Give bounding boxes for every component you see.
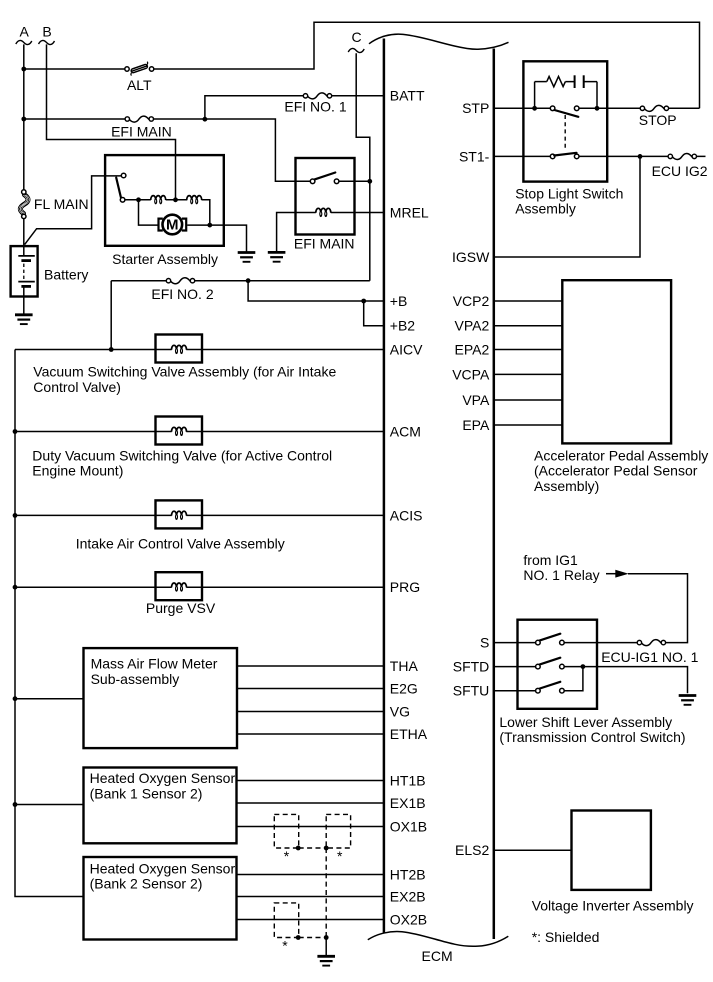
ground SFTD [679, 696, 697, 705]
wire SFTU link [564, 667, 583, 691]
capacitor stop switch [565, 75, 597, 88]
label Vacuum Switching Valve Assembly [33, 364, 336, 395]
coil PRG [172, 583, 187, 592]
ECM top torn edge [369, 34, 509, 49]
svg-text:ECU IG2: ECU IG2 [652, 163, 708, 179]
ground shield [317, 956, 335, 965]
wire A bus [23, 44, 25, 189]
wire C drop [356, 53, 370, 281]
svg-text:E2G: E2G [390, 680, 418, 696]
label Duty Vacuum Switching Valve [32, 447, 332, 478]
svg-text:Mass Air Flow Meter: Mass Air Flow Meter [91, 656, 218, 672]
stop light switch box [523, 61, 607, 181]
pin SFTD [453, 659, 536, 675]
junction starter motor out [207, 223, 212, 228]
svg-text:OX2B: OX2B [390, 911, 427, 927]
dashed link stop switches [564, 115, 566, 150]
switch STP [550, 106, 579, 117]
junction starter B feed [173, 197, 178, 202]
fusible link ALT [125, 62, 154, 76]
node A [16, 24, 32, 45]
wire +B2 feed [364, 301, 385, 326]
switch starter [116, 173, 126, 202]
svg-text:PRG: PRG [390, 579, 420, 595]
pin S [480, 635, 536, 651]
junction +B tap [246, 278, 251, 283]
svg-text:HT1B: HT1B [390, 772, 426, 788]
svg-text:Heated Oxygen Sensor: Heated Oxygen Sensor [90, 770, 236, 786]
svg-text:(Bank 2 Sensor 2): (Bank 2 Sensor 2) [90, 876, 203, 892]
switch SFTU [536, 682, 565, 693]
fuse ECU IG2 [668, 153, 696, 159]
svg-text:EX2B: EX2B [390, 888, 426, 904]
heated oxygen sensor bank2 box [84, 857, 237, 940]
svg-text:ECU-IG1 NO. 1: ECU-IG1 NO. 1 [601, 649, 698, 665]
ground starter [238, 253, 256, 262]
wire SFTD to ground [564, 667, 687, 694]
svg-text:(Transmission Control Switch): (Transmission Control Switch) [499, 729, 685, 745]
junction bus-ACM [13, 429, 18, 434]
svg-text:EFI NO. 1: EFI NO. 1 [284, 98, 346, 114]
svg-text:(Bank 1 Sensor 2): (Bank 1 Sensor 2) [90, 786, 203, 802]
svg-text:*: * [282, 937, 288, 953]
label Accelerator Pedal Assembly [534, 447, 708, 494]
fusible link FL MAIN [19, 190, 30, 219]
switch SFTD [536, 658, 565, 669]
wire relay coil leads [277, 213, 385, 253]
junction rc left [532, 106, 537, 111]
wire B bus [47, 44, 176, 199]
svg-text:ECM: ECM [422, 948, 453, 964]
wire starter internal [125, 200, 247, 252]
shield dashed link OX2B [299, 937, 327, 939]
pin EX1B [237, 795, 426, 811]
wire MAF left feed [15, 698, 84, 700]
coil EFI MAIN relay [316, 208, 331, 217]
coil starter primary [151, 196, 166, 205]
junction bus-PRG [13, 585, 18, 590]
node B [39, 24, 55, 45]
arrow from IG1 relay [606, 570, 688, 643]
svg-text:BATT: BATT [390, 88, 425, 104]
coil ACIS [172, 511, 187, 520]
pin OX1B [237, 818, 428, 834]
svg-text:EFI MAIN: EFI MAIN [294, 236, 355, 252]
ECM bottom torn edge [368, 931, 509, 946]
svg-text:A: A [20, 24, 30, 40]
svg-text:EFI MAIN: EFI MAIN [111, 124, 172, 140]
svg-text:*: * [337, 848, 343, 864]
svg-text:Assembly: Assembly [515, 201, 576, 217]
accelerator pedal box [562, 280, 671, 443]
wire FL MAIN to battery [23, 219, 25, 246]
pin IGSW [452, 156, 640, 265]
pin ELS2 [455, 842, 571, 858]
junction shield OX1B b [324, 846, 329, 851]
svg-text:VCPA: VCPA [452, 366, 490, 382]
wire AICV line [15, 349, 384, 351]
svg-text:Starter Assembly: Starter Assembly [112, 251, 218, 267]
pin VCP2 [453, 293, 563, 309]
shield box OX1B left [274, 814, 298, 848]
junction bus-MAF [13, 696, 18, 701]
svg-text:B: B [42, 24, 51, 40]
svg-text:EX1B: EX1B [390, 795, 426, 811]
junction SFTD-SFTU [581, 664, 586, 669]
pin OX2B [237, 911, 428, 927]
label Heated Oxygen Sensor Bank 1 [90, 770, 236, 801]
fuse STOP [640, 105, 668, 111]
wire S to fuse [564, 642, 637, 644]
pin VPA2 [455, 318, 563, 334]
coil AICV [172, 345, 187, 354]
wire stop switch rc branch [535, 82, 597, 109]
relay box EFI MAIN [296, 158, 355, 235]
svg-text:SFTD: SFTD [453, 659, 490, 675]
svg-text:Vacuum Switching Valve Assembl: Vacuum Switching Valve Assembly (for Air… [33, 364, 336, 380]
svg-text:Assembly): Assembly) [534, 478, 599, 494]
junction EFI NO.2 to AICV [109, 347, 114, 352]
wire EFI NO.1 line [205, 96, 384, 119]
wire ST1- to fuse [579, 155, 706, 157]
pin EPA [462, 417, 562, 433]
mass air flow meter box [84, 648, 238, 748]
shift lever box [518, 620, 598, 709]
svg-text:Heated Oxygen Sensor: Heated Oxygen Sensor [90, 860, 236, 876]
switch ST1- [550, 153, 579, 159]
wire STP to fuse [579, 107, 700, 109]
svg-text:SFTU: SFTU [453, 683, 490, 699]
svg-text:*: * [284, 848, 290, 864]
svg-text:ALT: ALT [127, 77, 152, 93]
junction starter switch-coil [136, 197, 141, 202]
junction bus-ACIS [13, 513, 18, 518]
svg-text:+B2: +B2 [390, 318, 416, 334]
svg-text:IGSW: IGSW [452, 249, 490, 265]
svg-text:VPA2: VPA2 [455, 318, 490, 334]
label Stop Light Switch Assembly [515, 185, 623, 216]
junction relay-C [367, 179, 372, 184]
ground battery [15, 315, 33, 324]
svg-text:S: S [480, 635, 489, 651]
pin SFTU [453, 683, 536, 699]
coil starter secondary [187, 196, 202, 205]
wire ALT line and top feed [24, 22, 700, 108]
wire battery to starter switch [25, 176, 122, 245]
svg-text:FL MAIN: FL MAIN [34, 196, 89, 212]
shield box OX1B right [326, 814, 350, 848]
ECM right edge [493, 49, 496, 940]
wire ACIS line [15, 514, 384, 516]
wire HO2S1 left feed [15, 804, 84, 806]
fuse EFI NO. 1 [303, 93, 331, 99]
pin VPA [462, 392, 562, 408]
ECM left edge [383, 39, 386, 934]
junction A-ALT [21, 67, 26, 72]
pin VG [237, 703, 410, 719]
shield dashed link OX1B [299, 847, 327, 849]
svg-text:STP: STP [462, 100, 489, 116]
svg-text:EPA: EPA [462, 417, 490, 433]
pin HT2B [237, 866, 426, 882]
heated oxygen sensor bank1 box [84, 768, 237, 844]
svg-text:Accelerator Pedal Assembly: Accelerator Pedal Assembly [534, 447, 708, 463]
pin ST1- [459, 148, 550, 164]
svg-text:NO. 1 Relay: NO. 1 Relay [523, 567, 599, 583]
svg-text:Sub-assembly: Sub-assembly [91, 671, 180, 687]
junction +B2 tap [361, 299, 366, 304]
junction rc right [595, 106, 600, 111]
label from IG1 NO.1 Relay [523, 552, 599, 583]
battery [11, 246, 38, 315]
ground relay coil [268, 252, 286, 261]
svg-text:Engine Mount): Engine Mount) [32, 463, 123, 479]
pin THA [237, 658, 418, 674]
motor starter M [159, 215, 187, 235]
fuse EFI MAIN [125, 116, 153, 122]
pin STP [462, 100, 550, 116]
svg-text:STOP: STOP [639, 112, 677, 128]
wire shield ground lead [325, 938, 327, 957]
wire ACM line [15, 431, 384, 433]
wire VSV supply bus [15, 350, 84, 897]
label Lower Shift Lever Assembly [499, 714, 685, 745]
pin HT1B [237, 772, 426, 788]
svg-text:VG: VG [390, 703, 410, 719]
svg-text:Lower Shift Lever Assembly: Lower Shift Lever Assembly [499, 714, 672, 730]
svg-text:ACM: ACM [390, 423, 421, 439]
svg-text:MREL: MREL [390, 204, 429, 220]
pin VCPA [452, 366, 562, 382]
wire EFI NO.2 line [111, 281, 370, 350]
fuse ECU-IG1 NO.1 [637, 640, 665, 646]
wire relay contact to C line [339, 180, 370, 182]
vsv PRG box [156, 572, 203, 600]
fuse EFI NO. 2 [166, 278, 194, 284]
svg-text:(Accelerator Pedal Sensor: (Accelerator Pedal Sensor [534, 463, 698, 479]
svg-text:C: C [352, 29, 362, 45]
svg-text:Intake Air Control Valve Assem: Intake Air Control Valve Assembly [76, 536, 285, 552]
svg-text:ACIS: ACIS [390, 507, 423, 523]
svg-text:Purge VSV: Purge VSV [146, 600, 216, 616]
junction ST1-IGSW [638, 154, 643, 159]
wire PRG line [15, 586, 384, 588]
relay contact EFI MAIN [310, 173, 339, 184]
svg-text:ST1-: ST1- [459, 148, 490, 164]
svg-text:THA: THA [390, 658, 419, 674]
svg-text:HT2B: HT2B [390, 866, 426, 882]
resistor stop switch [535, 76, 566, 86]
junction A-EFI MAIN [21, 117, 26, 122]
pin EPA2 [455, 341, 563, 357]
vsv AICV box [156, 335, 203, 363]
svg-text:Stop Light Switch: Stop Light Switch [515, 185, 623, 201]
wire +B feed [248, 281, 384, 301]
svg-text:M: M [166, 217, 179, 234]
svg-text:OX1B: OX1B [390, 818, 427, 834]
pin EX2B [237, 888, 426, 904]
junction shield OX2B a [296, 935, 301, 940]
label Mass Air Flow Meter Sub-assembly [91, 656, 218, 687]
svg-text:ELS2: ELS2 [455, 842, 489, 858]
junction bus-HO2S1 [13, 802, 18, 807]
svg-text:EFI NO. 2: EFI NO. 2 [151, 286, 213, 302]
svg-text:Battery: Battery [44, 267, 88, 283]
svg-text:EPA2: EPA2 [455, 341, 490, 357]
switch S [536, 634, 565, 645]
svg-text:ETHA: ETHA [390, 726, 428, 742]
svg-text:+B: +B [390, 293, 408, 309]
shield dashed drop [325, 848, 327, 938]
coil ACM [172, 427, 187, 436]
svg-text:Control Valve): Control Valve) [33, 379, 121, 395]
junction shield OX1B a [296, 846, 301, 851]
svg-text:AICV: AICV [390, 341, 423, 357]
label Heated Oxygen Sensor Bank 2 [90, 860, 236, 891]
shield box OX2B [274, 903, 298, 938]
pin ETHA [237, 726, 428, 742]
svg-text:Voltage Inverter Assembly: Voltage Inverter Assembly [532, 898, 694, 914]
junction shield OX2B b [324, 935, 329, 940]
voltage inverter box [572, 811, 651, 890]
vsv ACM box [156, 417, 203, 445]
starter assembly box [105, 155, 224, 246]
pin E2G [237, 680, 418, 696]
svg-text:VPA: VPA [462, 392, 490, 408]
svg-text:*: Shielded: *: Shielded [532, 929, 600, 945]
vsv ACIS box [156, 500, 203, 528]
wire EFI MAIN line [24, 119, 311, 181]
svg-text:from IG1: from IG1 [523, 552, 578, 568]
svg-text:Duty Vacuum Switching Valve (f: Duty Vacuum Switching Valve (for Active … [32, 447, 332, 463]
node C [348, 29, 364, 53]
junction EFI NO.1 tap [203, 117, 208, 122]
svg-text:VCP2: VCP2 [453, 293, 490, 309]
